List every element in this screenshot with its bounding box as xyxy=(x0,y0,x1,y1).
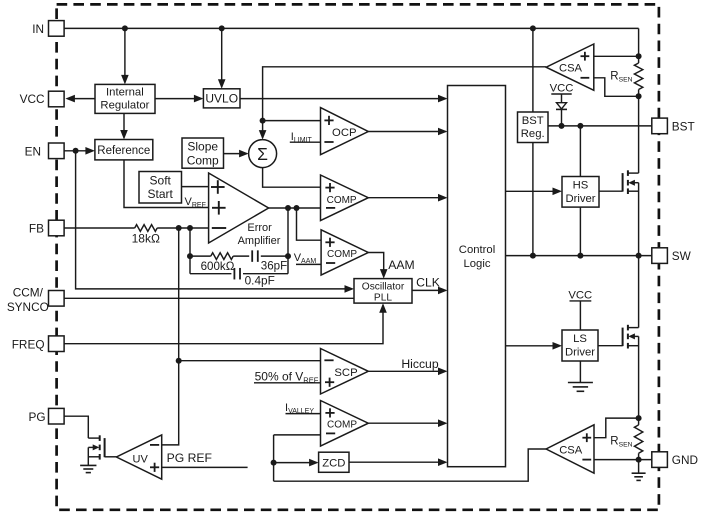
svg-text:Slope: Slope xyxy=(187,140,218,154)
svg-text:CSA: CSA xyxy=(559,63,583,75)
svg-text:ZCD: ZCD xyxy=(322,457,345,469)
svg-text:PLL: PLL xyxy=(374,293,392,304)
svg-text:Driver: Driver xyxy=(565,346,595,358)
svg-text:SCP: SCP xyxy=(334,367,357,379)
svg-text:AAM: AAM xyxy=(388,258,414,272)
svg-text:COMP: COMP xyxy=(327,249,357,260)
svg-text:SYNCO: SYNCO xyxy=(7,300,49,314)
svg-text:UV: UV xyxy=(133,454,149,466)
svg-text:600kΩ: 600kΩ xyxy=(201,260,235,273)
svg-text:FB: FB xyxy=(29,222,44,236)
svg-text:VCC: VCC xyxy=(20,92,45,106)
svg-text:Driver: Driver xyxy=(565,193,595,205)
svg-text:Hiccup: Hiccup xyxy=(401,357,438,371)
svg-text:36pF: 36pF xyxy=(261,259,287,272)
svg-text:Logic: Logic xyxy=(463,258,490,270)
svg-text:18kΩ: 18kΩ xyxy=(132,231,160,245)
svg-text:Regulator: Regulator xyxy=(100,100,149,112)
svg-text:OCP: OCP xyxy=(332,127,356,139)
svg-text:Oscillator: Oscillator xyxy=(362,282,405,293)
svg-text:Start: Start xyxy=(148,187,174,201)
svg-text:Soft: Soft xyxy=(150,173,172,187)
svg-text:HS: HS xyxy=(573,180,589,192)
svg-text:LS: LS xyxy=(573,333,587,345)
svg-text:Reference: Reference xyxy=(97,145,150,157)
svg-text:SW: SW xyxy=(672,249,692,263)
svg-text:CCM/: CCM/ xyxy=(13,286,44,300)
svg-text:COMP: COMP xyxy=(327,195,357,206)
svg-text:Reg.: Reg. xyxy=(521,128,545,140)
svg-text:CSA: CSA xyxy=(559,445,583,457)
svg-text:BST: BST xyxy=(672,120,695,134)
svg-text:COMP: COMP xyxy=(327,419,357,430)
svg-text:Σ: Σ xyxy=(257,144,268,164)
svg-text:FREQ: FREQ xyxy=(12,337,45,351)
svg-text:Error: Error xyxy=(247,222,272,234)
svg-text:0.4pF: 0.4pF xyxy=(245,273,275,287)
svg-text:PG: PG xyxy=(29,410,46,424)
svg-text:GND: GND xyxy=(672,453,698,467)
svg-text:CLK: CLK xyxy=(416,276,440,290)
svg-text:Internal: Internal xyxy=(106,86,144,98)
svg-text:VCC: VCC xyxy=(568,289,592,301)
svg-text:EN: EN xyxy=(25,144,41,158)
svg-text:Comp: Comp xyxy=(187,153,219,167)
svg-text:Control: Control xyxy=(459,244,495,256)
svg-text:BST: BST xyxy=(522,115,544,127)
svg-text:UVLO: UVLO xyxy=(205,92,238,106)
svg-text:PG REF: PG REF xyxy=(167,451,212,465)
svg-text:IN: IN xyxy=(32,22,44,36)
svg-text:Amplifier: Amplifier xyxy=(238,235,281,247)
svg-text:VCC: VCC xyxy=(550,83,574,95)
